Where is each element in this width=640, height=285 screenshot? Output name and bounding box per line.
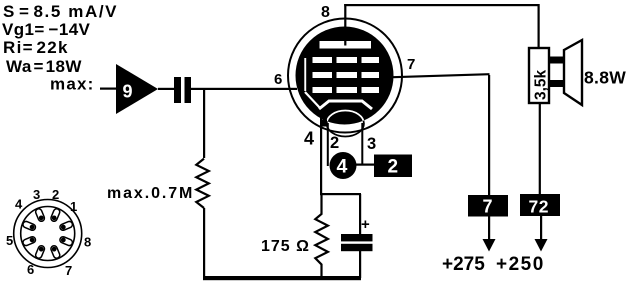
svg-text:max.0.7M: max.0.7M [107, 185, 194, 202]
wire capacitor to grid (pin 6) [191, 88, 297, 90]
cathode resistor 175 ohm [315, 195, 328, 277]
capacitor lead to bus [359, 250, 361, 278]
svg-text:4: 4 [337, 156, 348, 178]
tube socket outer circle [14, 200, 82, 268]
anode plate (white bar) [320, 41, 372, 49]
socket pin 5 [35, 245, 46, 259]
svg-text:7: 7 [407, 56, 415, 73]
terminal circle 4 [330, 152, 357, 179]
socket pin 8 [59, 220, 73, 231]
heater lead pin 3 [361, 123, 363, 165]
terminal box 72 [520, 194, 560, 216]
cathode capacitor plates [341, 234, 373, 241]
svg-text:175 Ω: 175 Ω [261, 238, 310, 255]
svg-text:+: + [361, 216, 370, 233]
svg-text:2: 2 [52, 187, 59, 202]
wire triangle to capacitor [158, 88, 175, 90]
svg-text:9: 9 [123, 82, 133, 102]
wire resistor to ground bus [203, 208, 205, 278]
heater lead pin 2 [327, 123, 329, 166]
tube socket inner circle [21, 207, 75, 261]
coupling capacitor [174, 77, 181, 103]
svg-text:+275: +275 [442, 254, 485, 275]
ground bus wire (bottom) [203, 276, 361, 280]
grid row 3 [313, 87, 333, 93]
socket pin 7 [59, 236, 73, 247]
svg-text:Vg1= −14V: Vg1= −14V [2, 20, 91, 39]
svg-text:max:: max: [50, 75, 95, 94]
speaker connector tabs [549, 57, 564, 64]
terminal box 2 [374, 155, 412, 178]
grid side rail (white) [304, 58, 306, 91]
svg-text:4: 4 [15, 197, 23, 212]
svg-text:8: 8 [321, 4, 330, 21]
socket pin 3 [22, 220, 36, 231]
pin 4 lead down [320, 110, 322, 195]
svg-text:5: 5 [6, 233, 13, 248]
resistor max.0.7M [196, 159, 209, 208]
wire cathode node to capacitor branch [320, 193, 361, 195]
wire grid branch down [203, 89, 205, 158]
socket pin 2 [35, 208, 46, 222]
svg-text:8.8W: 8.8W [584, 68, 626, 88]
tube V1 internal disk [296, 27, 394, 125]
svg-text:3: 3 [33, 187, 40, 202]
anode lead wire (pin 8) [344, 4, 346, 46]
svg-text:S = 8.5 mA/V: S = 8.5 mA/V [3, 2, 118, 21]
wire pin8 to output transformer [344, 4, 538, 6]
svg-text:8: 8 [84, 235, 91, 250]
wire input to amplifier [100, 88, 116, 90]
svg-text:6: 6 [27, 262, 34, 277]
cathode (white chevron) [319, 101, 372, 109]
speaker cone [564, 40, 582, 105]
svg-text:6: 6 [274, 71, 282, 88]
heater ellipse (black outside disk) [327, 111, 364, 137]
wire box7 to arrow [488, 216, 490, 240]
grid row 1 [313, 57, 333, 63]
svg-text:4: 4 [304, 129, 314, 149]
svg-text:+250: +250 [496, 254, 545, 275]
wire screen grid (pin 7) [393, 74, 490, 77]
svg-text:3,5k: 3,5k [533, 69, 550, 100]
svg-text:1: 1 [70, 199, 77, 214]
arrow +250 [535, 239, 548, 252]
output transformer primary 3.5k [529, 48, 549, 103]
wire 3.5k to box72 [539, 103, 541, 195]
grid row 2 [313, 72, 333, 78]
arrow +275 [483, 239, 496, 252]
svg-text:2: 2 [388, 157, 399, 178]
cathode lead white diagonal [305, 92, 320, 108]
heater ellipse (white inside disk) [327, 111, 364, 137]
socket pin 4 [22, 236, 36, 247]
pin 4 junction square [320, 120, 327, 127]
tube V1 envelope [288, 19, 402, 133]
wire box72 to arrow [540, 216, 542, 240]
cathode capacitor lead [359, 194, 361, 235]
svg-text:Wa = 18W: Wa = 18W [6, 57, 82, 76]
svg-text:Ri= 22k: Ri= 22k [3, 38, 69, 57]
terminal box 7 [468, 195, 508, 217]
svg-text:7: 7 [483, 197, 493, 217]
svg-text:2: 2 [330, 134, 339, 152]
wire circle4 to box2 [356, 164, 376, 166]
socket pin 6 [50, 245, 61, 259]
amplifier stage 9 (triangle) [116, 64, 158, 114]
svg-text:72: 72 [529, 197, 549, 217]
svg-text:7: 7 [65, 263, 72, 278]
socket pin 1 [50, 208, 61, 222]
socket pins [22, 208, 73, 259]
svg-text:3: 3 [367, 135, 376, 153]
